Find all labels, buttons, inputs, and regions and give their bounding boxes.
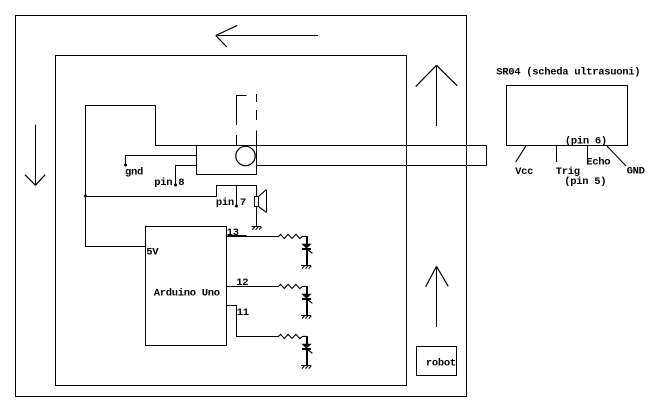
wire pin 12 — [227, 286, 279, 288]
arrow left (top) — [216, 25, 318, 47]
svg-text:(pin 5): (pin 5) — [564, 176, 606, 188]
outer boundary rectangle — [16, 16, 467, 397]
node pin8 dot — [174, 184, 177, 187]
robot box — [417, 347, 457, 376]
svg-text:robot: robot — [426, 358, 456, 370]
svg-text:pin 8: pin 8 — [154, 177, 184, 189]
dashed sensor outline right side — [256, 94, 258, 145]
arrow down (left) — [25, 125, 45, 186]
svg-text:13: 13 — [227, 227, 239, 239]
wire gnd from servo — [126, 156, 197, 166]
LED D2 — [302, 294, 312, 303]
wire R3 to LED3 — [306, 336, 308, 344]
wire R1 to LED1 — [306, 236, 308, 244]
svg-text:5V: 5V — [146, 247, 159, 259]
Arduino Uno board U1 — [146, 227, 227, 346]
wire pin 11 — [227, 306, 279, 337]
wire pin 13 — [227, 236, 279, 237]
node pin7 dot — [235, 205, 238, 208]
svg-text:(pin 6): (pin 6) — [565, 135, 607, 147]
wire pin 7 tap — [236, 186, 238, 206]
wire R2 to LED2 — [306, 286, 308, 294]
wire LED2 to ground — [306, 299, 308, 316]
wire LED3 to ground — [306, 349, 308, 366]
svg-text:GND: GND — [627, 166, 645, 178]
node gnd dot — [124, 164, 127, 167]
svg-text:Vcc: Vcc — [515, 166, 533, 178]
SR04 ultrasonic board U2 — [507, 86, 628, 146]
sensor arm bar — [257, 146, 487, 166]
ground (speaker) — [251, 227, 261, 230]
servo shaft circle — [236, 146, 255, 165]
wire speaker to ground — [256, 207, 258, 227]
svg-text:Arduino Uno: Arduino Uno — [154, 288, 220, 300]
wire 5V: servo to Arduino — [86, 106, 197, 247]
wire pin 8 from servo — [176, 166, 197, 186]
svg-text:12: 12 — [236, 277, 248, 289]
dashed sensor outline left side — [236, 95, 238, 146]
resistor R3 — [279, 334, 307, 338]
ground (LED1) — [301, 266, 311, 269]
ground (LED2) — [301, 316, 311, 319]
resistor R1 — [279, 234, 307, 238]
wire pin 7 / speaker — [86, 186, 257, 197]
svg-text:SR04 (scheda ultrasuoni): SR04 (scheda ultrasuoni) — [496, 66, 640, 78]
inner boundary rectangle — [56, 56, 407, 386]
LED D3 — [302, 344, 312, 353]
arrow up (bottom right) — [426, 266, 449, 327]
wire LED1 to ground — [306, 249, 308, 266]
ground (LED3) — [301, 366, 311, 369]
pin Echo lead — [587, 146, 589, 158]
dashed sensor outline top side — [237, 95, 247, 97]
servo box — [197, 146, 257, 175]
svg-text:gnd: gnd — [125, 167, 143, 179]
pin Vcc lead — [516, 146, 526, 162]
arrow up (top right) — [416, 65, 458, 126]
svg-text:11: 11 — [237, 307, 249, 319]
speaker SP1 — [255, 190, 267, 213]
LED D1 — [302, 244, 312, 253]
pin GND lead — [607, 146, 626, 166]
svg-text:pin 7: pin 7 — [216, 197, 246, 209]
resistor R2 — [279, 284, 307, 288]
svg-text:Echo: Echo — [586, 156, 610, 168]
pin Trig lead — [556, 146, 558, 162]
node junction dot on 5V rail — [84, 195, 87, 198]
